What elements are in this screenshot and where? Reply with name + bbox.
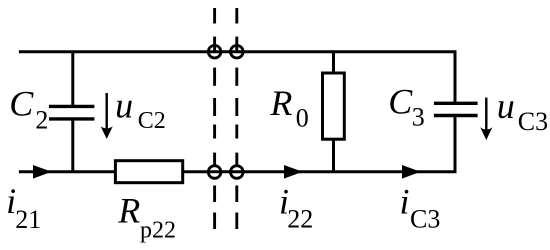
label iC3 [400,182,441,234]
voltage arrow uC2 [101,93,113,139]
label C2 [9,84,48,135]
svg-text:C: C [388,82,413,122]
wire R0 top lead [332,52,335,73]
svg-text:C2: C2 [138,108,166,134]
label i22 [279,181,313,233]
wire top horizontal [19,50,457,53]
svg-text:2: 2 [35,106,48,135]
dashed boundary line left [213,8,216,229]
terminal circle top-right [231,45,244,58]
current arrow iC3 [402,165,421,179]
svg-text:u: u [497,86,515,126]
wire right vertical upper (C3 top lead) [454,52,457,104]
resistor R0 body [323,73,345,139]
label uC2 [115,85,166,133]
terminal circle top-left [208,45,221,58]
terminal circle bottom-left [208,166,221,179]
svg-text:3: 3 [412,102,425,131]
label R0 [269,83,308,133]
svg-text:0: 0 [296,104,309,133]
svg-text:u: u [115,85,133,125]
svg-text:21: 21 [15,205,41,234]
resistor Rp22 body [115,161,182,183]
svg-text:C3: C3 [410,205,440,234]
wire C2 bottom lead [71,119,74,172]
label i21 [6,181,41,234]
voltage arrow uC3 [480,98,492,140]
svg-text:p22: p22 [140,218,176,244]
wire bottom horizontal left of Rp22 [19,170,116,173]
svg-text:R: R [117,191,140,231]
wire right vertical lower (C3 bottom lead) [454,116,457,172]
label uC3 [497,86,548,136]
current arrow i22 [284,165,303,179]
wire C2 top lead [71,52,74,107]
terminal circle bottom-right [231,166,244,179]
current arrow i21 [33,165,52,179]
svg-text:i: i [400,182,410,222]
capacitor C2 plates [49,106,94,119]
wire R0 bottom lead [332,139,335,172]
svg-text:C3: C3 [518,107,548,136]
label C3 [388,82,425,132]
dashed boundary line right [235,8,238,229]
capacitor C3 plates [434,103,478,115]
wire bottom horizontal right of Rp22 [183,170,457,173]
svg-text:R: R [269,83,292,123]
svg-text:22: 22 [287,205,313,234]
label Rp22 [117,191,176,244]
svg-text:C: C [9,84,34,124]
